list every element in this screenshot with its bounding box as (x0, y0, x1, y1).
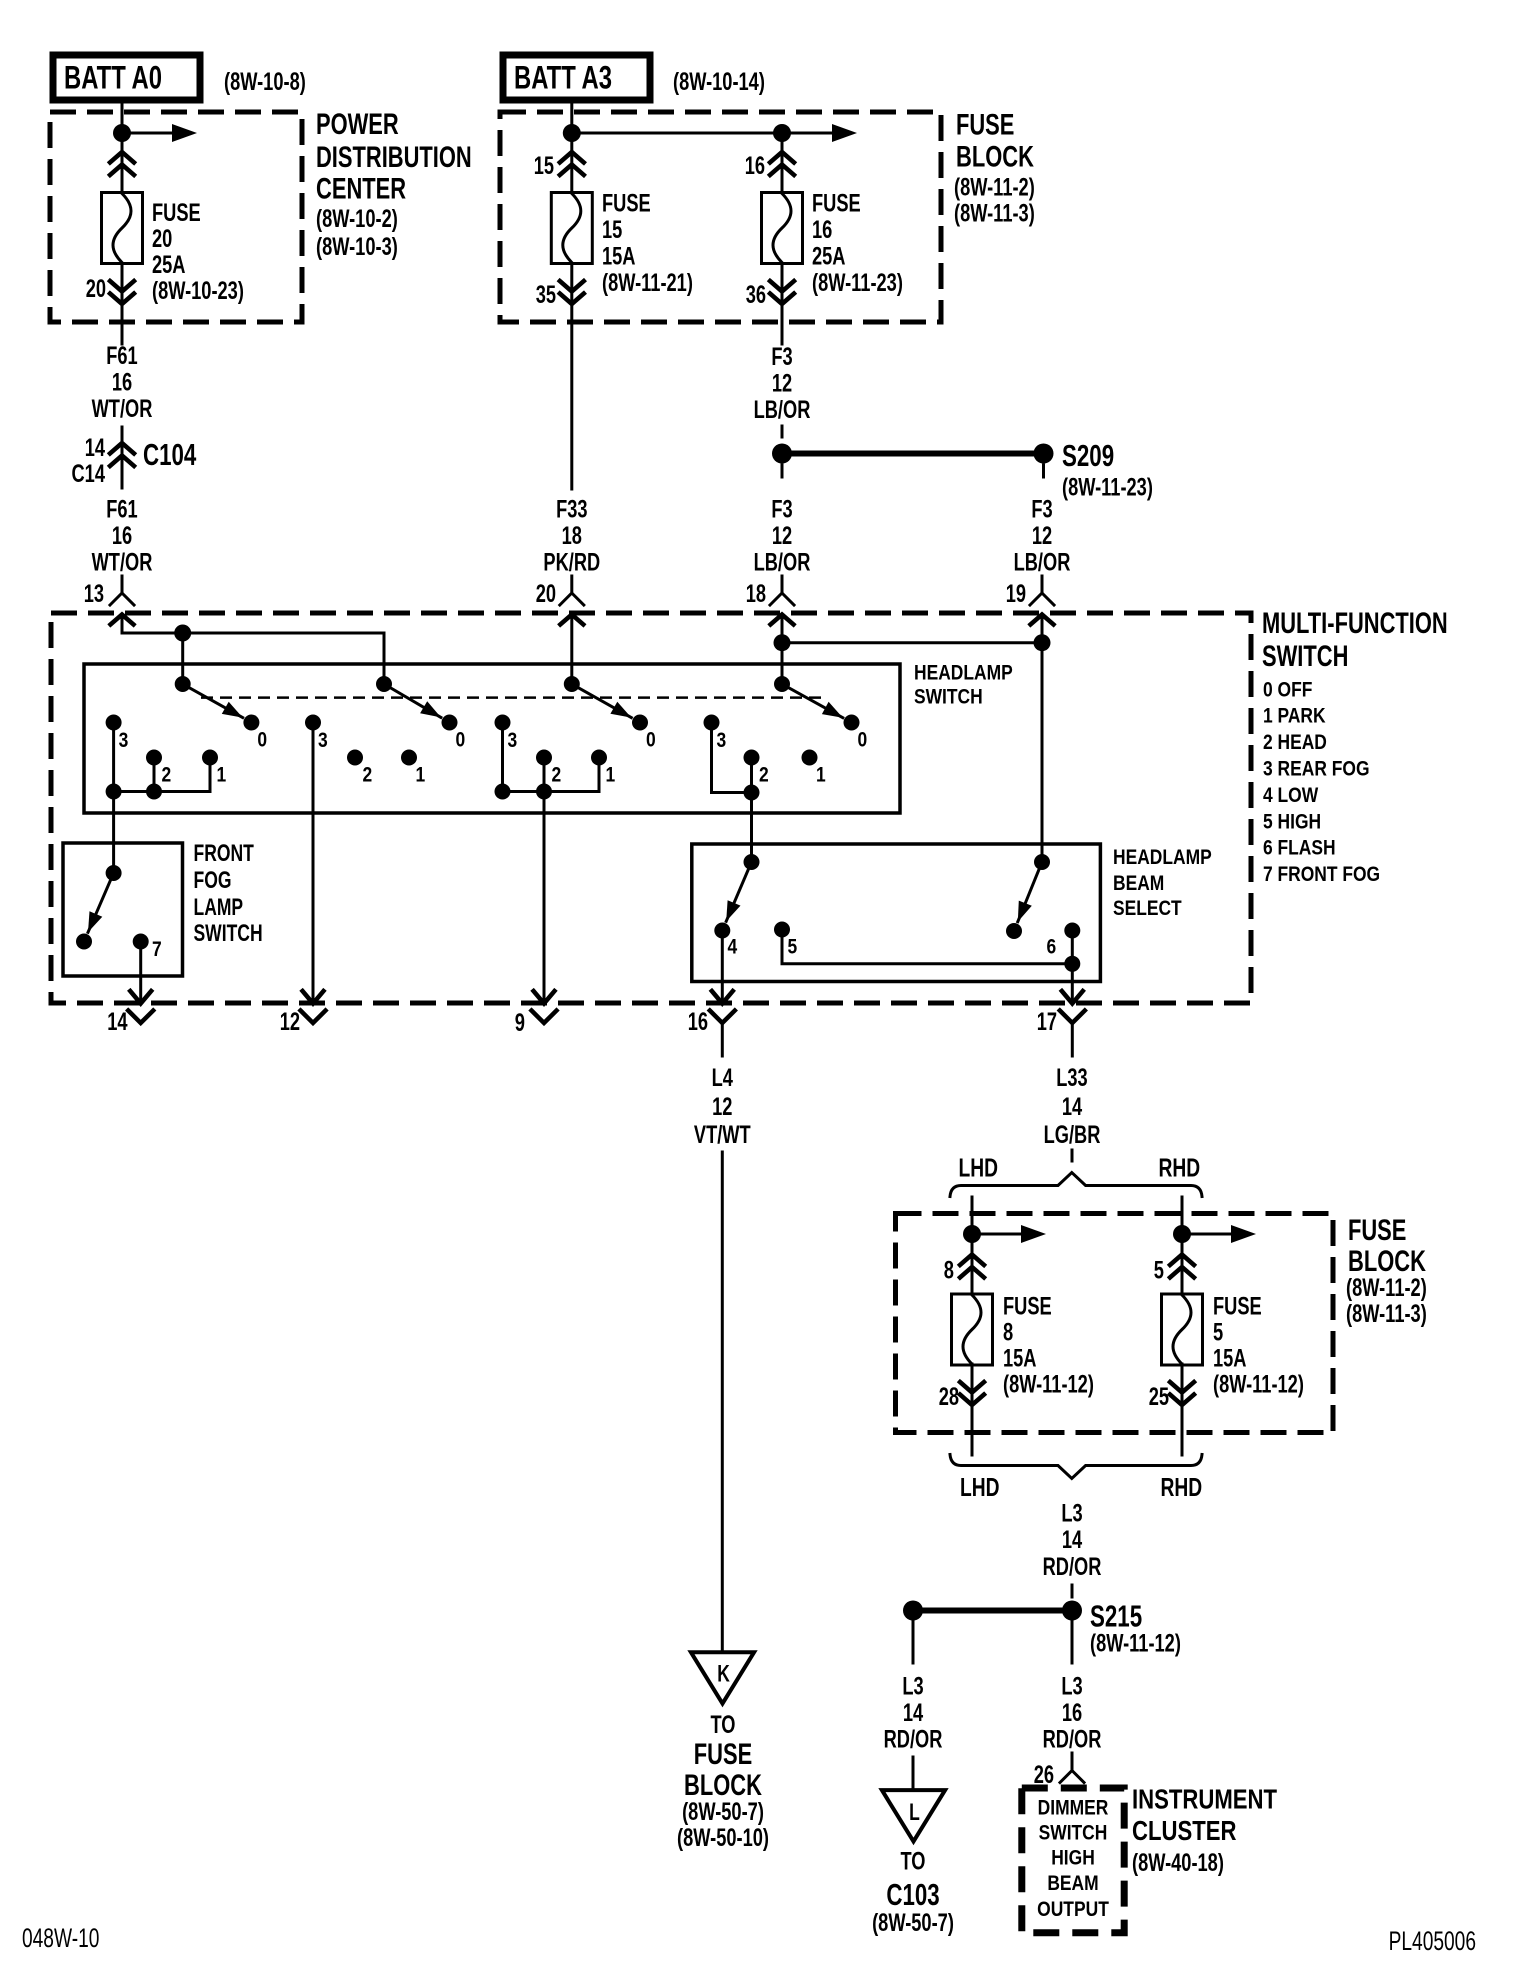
svg-text:25: 25 (1149, 1383, 1169, 1411)
wire contact 7 to exit 14 (139, 942, 142, 1002)
wire batt A0 feed (121, 104, 124, 133)
svg-text:L3: L3 (1061, 1673, 1082, 1701)
mechanical coupling dashed line (201, 696, 826, 699)
svg-text:2: 2 (363, 764, 373, 787)
svg-text:SWITCH: SWITCH (1039, 1822, 1108, 1845)
gang 2 contact 3 wire to exit 12 (312, 723, 315, 1002)
wire label F3 12 LB/OR (754, 343, 811, 424)
wire F3 (781, 322, 784, 344)
feed arrow (1182, 1225, 1256, 1243)
svg-text:(8W-50-7): (8W-50-7) (682, 1798, 764, 1826)
svg-text:19: 19 (1006, 580, 1026, 608)
svg-text:RD/OR: RD/OR (1043, 1726, 1102, 1754)
headlamp switch inner box (84, 664, 900, 813)
feed bus to switch 1 and 2 (122, 632, 384, 635)
svg-text:25A: 25A (152, 251, 186, 279)
connector BATT A3 (503, 55, 650, 100)
svg-text:(8W-11-23): (8W-11-23) (812, 269, 903, 297)
in-line connector at pin 19 (1030, 576, 1054, 605)
headlamp beam select box (692, 844, 1101, 982)
svg-text:16: 16 (112, 369, 132, 397)
svg-text:6: 6 (1047, 936, 1057, 959)
fuse 15 15A (551, 193, 592, 264)
junction dot (113, 124, 131, 142)
svg-text:15: 15 (534, 152, 554, 180)
male chevron pin 20 (560, 615, 583, 685)
wire label F33 18 PK/RD (543, 496, 600, 577)
connector chevrons pin 8 (960, 1234, 984, 1294)
svg-text:VT/WT: VT/WT (694, 1121, 751, 1149)
connector chevrons pin 5 (1170, 1234, 1194, 1294)
svg-text:K: K (717, 1661, 730, 1688)
svg-text:16: 16 (745, 152, 765, 180)
HEADLAMP SWITCH label (914, 662, 1013, 709)
svg-text:LB/OR: LB/OR (1014, 549, 1071, 577)
gang 2 contact 3 (305, 715, 328, 753)
wire gang3 to exit 9 (543, 792, 546, 1002)
fuse 20 25A (102, 193, 143, 264)
svg-text:9: 9 (515, 1009, 525, 1037)
svg-text:FRONT: FRONT (194, 840, 255, 867)
svg-text:(8W-10-14): (8W-10-14) (673, 68, 765, 96)
svg-text:(8W-10-2): (8W-10-2) (316, 205, 398, 233)
svg-text:(8W-11-12): (8W-11-12) (1213, 1371, 1304, 1399)
wire F61 (121, 322, 124, 344)
gang 3 contact bus (495, 723, 600, 800)
svg-text:36: 36 (746, 281, 766, 309)
svg-text:(8W-11-21): (8W-11-21) (602, 269, 693, 297)
gang 2 contact 0 (442, 715, 466, 752)
wire label F3 12 LB/OR (754, 496, 811, 577)
svg-text:(8W-11-23): (8W-11-23) (1062, 474, 1153, 502)
svg-text:PK/RD: PK/RD (543, 549, 600, 577)
svg-text:(8W-11-3): (8W-11-3) (1346, 1300, 1427, 1328)
connector chevrons pin 36 (770, 264, 794, 323)
svg-text:POWER: POWER (316, 108, 399, 141)
svg-text:18: 18 (746, 580, 766, 608)
svg-text:048W-10: 048W-10 (22, 1923, 99, 1953)
svg-text:BLOCK: BLOCK (956, 141, 1034, 174)
fuse block box (896, 1214, 1334, 1433)
wire gang1 to front fog switch (112, 792, 115, 874)
exit pin 9 (515, 991, 557, 1037)
svg-text:14: 14 (107, 1008, 127, 1036)
feed bus with arrow (572, 124, 857, 142)
feed link 18 to 19 (774, 634, 1051, 651)
connector chevrons pin 15 (560, 133, 584, 192)
wire (1071, 1621, 1074, 1663)
dimmer switch high beam output box (1022, 1788, 1124, 1933)
svg-text:F33: F33 (556, 496, 587, 524)
svg-text:C14: C14 (72, 460, 106, 488)
svg-text:FUSE: FUSE (1003, 1293, 1052, 1321)
svg-text:LG/BR: LG/BR (1044, 1121, 1101, 1149)
connector C104 (72, 434, 197, 488)
svg-text:HEADLAMP: HEADLAMP (914, 662, 1013, 685)
LHD/RHD split brace (950, 1173, 1202, 1197)
beam select flash contact (1006, 923, 1022, 939)
svg-text:14: 14 (903, 1699, 923, 1727)
gang 1 contact 1 (202, 750, 226, 787)
svg-text:(8W-50-10): (8W-50-10) (677, 1824, 769, 1852)
wire (781, 426, 784, 437)
in-line connector at pin 13 (110, 576, 134, 605)
wire RHD (1181, 1197, 1184, 1234)
wire label L4 12 VT/WT (694, 1064, 751, 1149)
svg-text:RHD: RHD (1161, 1472, 1203, 1502)
svg-text:4 LOW: 4 LOW (1263, 784, 1318, 807)
svg-text:SWITCH: SWITCH (914, 686, 983, 709)
wire label L3 14 RD/OR (1043, 1500, 1102, 1582)
svg-text:WT/OR: WT/OR (92, 395, 153, 423)
svg-text:L3: L3 (902, 1673, 923, 1701)
gang 4 contact 0 (844, 715, 868, 752)
svg-text:3 REAR FOG: 3 REAR FOG (1263, 758, 1370, 781)
connector chevrons pin 28 (960, 1364, 984, 1455)
FRONT FOG LAMP SWITCH label (194, 840, 263, 947)
svg-text:DIMMER: DIMMER (1038, 1797, 1109, 1820)
svg-text:(8W-11-3): (8W-11-3) (954, 200, 1035, 228)
svg-text:1 PARK: 1 PARK (1263, 705, 1326, 728)
headlamp switch gang 2 wiper (376, 676, 441, 717)
svg-text:16: 16 (1062, 1699, 1082, 1727)
svg-text:F3: F3 (1031, 496, 1052, 524)
svg-text:5: 5 (1213, 1319, 1223, 1347)
front fog contact (nc) (76, 934, 92, 950)
svg-text:0: 0 (257, 729, 267, 752)
svg-text:12: 12 (772, 370, 792, 398)
svg-text:LAMP: LAMP (194, 894, 244, 921)
svg-text:S209: S209 (1062, 438, 1114, 473)
contact 5-6 bus (782, 930, 1080, 972)
gang 1 contact 0 (243, 715, 267, 752)
connector chevrons pin 16 (770, 133, 794, 192)
svg-text:16: 16 (112, 522, 132, 550)
svg-text:20: 20 (536, 580, 556, 608)
svg-text:(8W-10-3): (8W-10-3) (316, 233, 398, 261)
gang 1 contact 3 (106, 715, 129, 753)
svg-text:13: 13 (84, 580, 104, 608)
svg-text:FOG: FOG (194, 867, 232, 894)
svg-text:(8W-11-2): (8W-11-2) (954, 174, 1035, 202)
fuse 5 label (1213, 1293, 1304, 1399)
exit pin 17 (1037, 991, 1085, 1056)
fuse 16 label (812, 190, 903, 298)
svg-text:25A: 25A (812, 243, 846, 271)
junction dot (963, 1225, 981, 1243)
wire label F3 12 LB/OR (1014, 496, 1071, 577)
svg-text:L4: L4 (712, 1064, 733, 1092)
svg-text:7 FRONT FOG: 7 FRONT FOG (1263, 863, 1380, 886)
wire (1042, 465, 1045, 477)
svg-text:RHD: RHD (1159, 1153, 1201, 1183)
beam select left wiper (726, 854, 759, 921)
connector chevrons pin 25 (1170, 1364, 1194, 1455)
HEADLAMP BEAM SELECT label (1113, 846, 1212, 920)
svg-text:L3: L3 (1061, 1500, 1082, 1528)
gang 4 contact 2 (744, 750, 769, 787)
svg-text:HIGH: HIGH (1051, 1847, 1095, 1870)
gang 4 contact 3 (704, 715, 727, 753)
exit pin 14 (107, 991, 153, 1036)
male chevron pin 19 (1031, 615, 1054, 863)
splice S215 (903, 1599, 1181, 1658)
svg-text:FUSE: FUSE (812, 190, 861, 218)
wire F33 (570, 322, 573, 489)
front fog switch wiper (88, 865, 122, 932)
svg-text:S215: S215 (1090, 1599, 1142, 1634)
in-line connector at pin 26 (1060, 1753, 1084, 1783)
exit pin 12 (280, 991, 326, 1036)
svg-text:14: 14 (1062, 1093, 1082, 1121)
svg-text:12: 12 (1032, 522, 1052, 550)
wire (1071, 1150, 1074, 1161)
wire label F61 16 WT/OR (92, 496, 153, 577)
svg-text:4: 4 (728, 936, 738, 959)
svg-text:15A: 15A (602, 243, 636, 271)
svg-text:5: 5 (1154, 1257, 1164, 1285)
svg-text:SWITCH: SWITCH (1262, 640, 1348, 673)
svg-text:8: 8 (944, 1257, 954, 1285)
wire to pivot 1 (181, 633, 184, 684)
svg-text:1: 1 (606, 764, 616, 787)
off-page connector L (882, 1790, 945, 1841)
wire to pivot 4 (781, 643, 784, 684)
svg-text:7: 7 (152, 938, 162, 961)
svg-text:OUTPUT: OUTPUT (1037, 1898, 1109, 1921)
svg-text:14: 14 (85, 434, 105, 462)
TO FUSE BLOCK label (677, 1711, 769, 1852)
svg-text:SELECT: SELECT (1113, 897, 1182, 920)
junction dot (174, 625, 191, 642)
svg-text:(8W-40-18): (8W-40-18) (1132, 1849, 1224, 1877)
fuse 8 label (1003, 1293, 1094, 1399)
svg-text:PL405006: PL405006 (1389, 1926, 1476, 1956)
wire label L3 14 RD/OR (884, 1673, 943, 1754)
svg-text:L: L (909, 1799, 920, 1826)
svg-text:F3: F3 (771, 496, 792, 524)
front fog lamp switch box (63, 843, 183, 976)
wire gang4 to beam select (750, 793, 753, 863)
gang 3 contact 3 (495, 715, 518, 753)
svg-text:BATT A3: BATT A3 (514, 60, 612, 96)
svg-text:1: 1 (816, 764, 826, 787)
svg-text:BATT A0: BATT A0 (64, 60, 162, 96)
svg-text:(8W-10-8): (8W-10-8) (224, 68, 306, 96)
svg-text:L33: L33 (1056, 1064, 1087, 1092)
svg-text:RD/OR: RD/OR (884, 1726, 943, 1754)
svg-text:2: 2 (162, 764, 172, 787)
svg-text:FUSE: FUSE (1348, 1214, 1406, 1247)
svg-text:1: 1 (217, 764, 227, 787)
svg-text:0: 0 (646, 729, 656, 752)
power distribution center box (50, 112, 302, 322)
svg-text:3: 3 (318, 729, 328, 752)
svg-text:C103: C103 (886, 1877, 939, 1912)
male chevron pin 18 (771, 615, 794, 643)
svg-text:18: 18 (562, 522, 582, 550)
svg-text:LB/OR: LB/OR (754, 396, 811, 424)
svg-text:16: 16 (812, 216, 832, 244)
connector chevrons pin 20 bottom (110, 264, 134, 323)
svg-text:MULTI-FUNCTION: MULTI-FUNCTION (1262, 607, 1448, 640)
svg-text:0: 0 (456, 729, 466, 752)
junction dot (563, 124, 581, 142)
fuse 15 label (602, 190, 693, 298)
svg-text:LHD: LHD (960, 1472, 1000, 1502)
fuse 5 15A (1162, 1294, 1203, 1365)
in-line connector at pin 20 (560, 576, 584, 605)
fuse 8 15A (952, 1294, 993, 1365)
svg-text:20: 20 (152, 225, 172, 253)
svg-text:1: 1 (416, 764, 426, 787)
svg-text:0 OFF: 0 OFF (1263, 679, 1313, 702)
svg-text:F61: F61 (106, 496, 137, 524)
svg-text:CLUSTER: CLUSTER (1132, 1815, 1237, 1846)
svg-text:(8W-50-7): (8W-50-7) (872, 1909, 954, 1937)
svg-text:0: 0 (858, 729, 868, 752)
svg-text:15A: 15A (1003, 1345, 1037, 1373)
svg-text:FUSE: FUSE (694, 1738, 752, 1771)
LHD/RHD merge brace (950, 1455, 1202, 1479)
MFS position list (1263, 679, 1380, 887)
svg-text:C104: C104 (143, 437, 197, 472)
wire (121, 427, 124, 488)
svg-text:BEAM: BEAM (1113, 872, 1164, 895)
beam select contact 5 (774, 922, 797, 959)
svg-text:FUSE: FUSE (956, 109, 1014, 142)
wire to pivot 2 (383, 633, 386, 684)
fuse 20 label (152, 199, 244, 305)
gang 2 contact 1 (401, 750, 425, 787)
svg-text:28: 28 (939, 1383, 959, 1411)
beam select right wiper (1018, 854, 1050, 922)
svg-text:12: 12 (280, 1008, 300, 1036)
svg-text:WT/OR: WT/OR (92, 549, 153, 577)
INSTRUMENT CLUSTER label (1132, 1784, 1277, 1878)
junction dot (1173, 1225, 1191, 1243)
svg-text:HEADLAMP: HEADLAMP (1113, 846, 1212, 869)
svg-text:3: 3 (119, 729, 129, 752)
svg-text:FUSE: FUSE (602, 190, 651, 218)
gang 4 contact bus (712, 723, 760, 801)
svg-text:TO: TO (901, 1848, 926, 1876)
front fog contact 7 (133, 934, 162, 962)
svg-text:8: 8 (1003, 1319, 1013, 1347)
svg-text:(8W-11-12): (8W-11-12) (1090, 1630, 1181, 1658)
male chevron pin 13 (111, 615, 134, 634)
feed arrow (972, 1225, 1046, 1243)
in-line connector at pin 18 (770, 576, 794, 605)
wire contact 4 to exit 16 (721, 931, 724, 1002)
svg-text:(8W-10-23): (8W-10-23) (152, 277, 244, 305)
gang 3 contact 1 (591, 750, 615, 787)
fuse block title (954, 109, 1035, 228)
svg-text:15A: 15A (1213, 1345, 1247, 1373)
exit pin 16 (688, 991, 735, 1056)
svg-text:2: 2 (552, 764, 562, 787)
svg-text:20: 20 (86, 275, 106, 303)
splice S209 (772, 438, 1153, 502)
wire LHD (971, 1197, 974, 1234)
svg-text:12: 12 (712, 1093, 732, 1121)
wire bus to exit 17 (1071, 964, 1074, 1001)
wire L4 (721, 1152, 724, 1652)
svg-text:F61: F61 (106, 342, 137, 370)
svg-text:35: 35 (536, 281, 556, 309)
connector BATT A0 (53, 55, 200, 100)
gang 1 contact 2 (146, 750, 171, 787)
junction dot (773, 124, 791, 142)
svg-text:SWITCH: SWITCH (194, 920, 263, 947)
connector chevrons pin 35 (560, 264, 584, 323)
svg-text:LHD: LHD (959, 1153, 999, 1183)
connector chevrons pin 20 top (110, 133, 134, 192)
svg-text:(8W-11-12): (8W-11-12) (1003, 1371, 1094, 1399)
MFS title (1262, 607, 1448, 673)
svg-text:17: 17 (1037, 1008, 1057, 1036)
fuse block box (500, 112, 941, 322)
gang 3 contact 2 (536, 750, 561, 787)
headlamp switch gang 1 wiper (175, 676, 243, 718)
PDC title (316, 108, 472, 261)
svg-text:12: 12 (772, 522, 792, 550)
svg-text:(8W-11-2): (8W-11-2) (1346, 1274, 1427, 1302)
beam select contact 4 (714, 923, 737, 959)
svg-text:3: 3 (508, 729, 518, 752)
svg-text:RD/OR: RD/OR (1043, 1553, 1102, 1581)
beam select contact 6 (1047, 923, 1081, 959)
svg-text:14: 14 (1062, 1526, 1082, 1554)
svg-text:2 HEAD: 2 HEAD (1263, 731, 1327, 754)
feed arrow (122, 124, 197, 142)
svg-text:2: 2 (759, 764, 769, 787)
gang 4 contact 1 (802, 750, 826, 787)
gang 1 contact bus (106, 723, 210, 800)
wire (912, 1757, 915, 1789)
svg-text:BEAM: BEAM (1047, 1872, 1098, 1895)
svg-text:DISTRIBUTION: DISTRIBUTION (316, 141, 472, 174)
gang 2 contact 2 (347, 750, 372, 787)
wire batt A3 feed (570, 104, 573, 133)
fuse 16 25A (762, 193, 803, 264)
svg-text:3: 3 (717, 729, 727, 752)
svg-text:15: 15 (602, 216, 622, 244)
svg-text:FUSE: FUSE (1213, 1293, 1262, 1321)
headlamp switch gang 4 wiper (774, 676, 843, 718)
svg-text:6 FLASH: 6 FLASH (1263, 837, 1336, 860)
fuse block title (1346, 1214, 1427, 1328)
wire label L3 16 RD/OR (1043, 1673, 1102, 1754)
svg-text:CENTER: CENTER (316, 173, 406, 206)
gang 3 contact 0 (632, 715, 656, 752)
svg-text:FUSE: FUSE (152, 199, 201, 227)
svg-text:LB/OR: LB/OR (754, 549, 811, 577)
off-page connector K (691, 1652, 754, 1703)
dimmer switch text (1037, 1797, 1109, 1922)
wire label F61 16 WT/OR (92, 342, 153, 423)
multi-function switch box (51, 613, 1251, 1003)
wire (1071, 1585, 1074, 1597)
wire label L33 14 LG/BR (1044, 1064, 1101, 1149)
svg-text:TO: TO (711, 1711, 736, 1739)
svg-text:5 HIGH: 5 HIGH (1263, 811, 1321, 834)
svg-text:5: 5 (788, 936, 798, 959)
svg-text:INSTRUMENT: INSTRUMENT (1132, 1784, 1277, 1815)
svg-text:16: 16 (688, 1008, 708, 1036)
headlamp switch gang 3 wiper (564, 676, 632, 718)
TO C103 label (872, 1848, 954, 1938)
